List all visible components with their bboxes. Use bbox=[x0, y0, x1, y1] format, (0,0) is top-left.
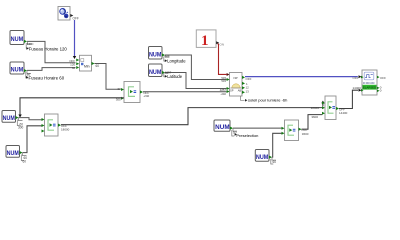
svg-text:NUM: NUM bbox=[215, 125, 229, 131]
blue wire sun to elapsed bbox=[245, 76, 358, 78]
svg-text:Preselection: Preselection bbox=[236, 133, 258, 138]
value label 305 bbox=[164, 55, 169, 61]
multiply block U5 bbox=[285, 120, 299, 141]
wire U1 to subtract bbox=[95, 64, 121, 90]
NUM constant N5 (Latitude) bbox=[149, 64, 166, 77]
constant box 1 (red) bbox=[196, 30, 216, 49]
svg-text:NUM: NUM bbox=[256, 155, 268, 161]
svg-text:NUM: NUM bbox=[149, 70, 161, 76]
svg-text:NUM: NUM bbox=[7, 151, 19, 157]
wire N7 to multiply bbox=[233, 127, 282, 129]
U5 input terminals bbox=[282, 127, 285, 135]
name label Latitude bbox=[165, 75, 167, 78]
svg-text:OFF: OFF bbox=[380, 76, 386, 80]
U7 terminals bbox=[361, 76, 364, 92]
svg-text:OFF: OFF bbox=[73, 17, 79, 21]
svg-text:120: 120 bbox=[27, 42, 32, 46]
svg-text:OFF: OFF bbox=[246, 77, 252, 81]
NUM constant N4 (Longitude) bbox=[149, 47, 166, 60]
svg-text:ON: ON bbox=[220, 42, 225, 46]
svg-text:soleil pour lumiere -6h: soleil pour lumiere -6h bbox=[248, 98, 287, 103]
value label 60 bbox=[26, 70, 31, 78]
wire N8 to multiply bbox=[272, 133, 282, 157]
value labels 60 300 bbox=[17, 118, 22, 126]
wire U2 to sun block bbox=[143, 91, 227, 93]
elapsed time block U7 bbox=[362, 70, 377, 95]
U6 input terminals bbox=[322, 102, 325, 115]
red wire 1 to sun bbox=[218, 44, 227, 74]
svg-text:60: 60 bbox=[118, 87, 122, 91]
name label Preselection bbox=[235, 133, 237, 136]
NUM constant N7 (Preselection) bbox=[214, 120, 233, 131]
svg-text:Longitude: Longitude bbox=[167, 59, 186, 64]
svg-text:18000: 18000 bbox=[311, 106, 320, 110]
wire blue down from timer bbox=[74, 20, 76, 58]
wire N3 to select1 bbox=[19, 118, 42, 120]
arrow out of 1 bbox=[216, 41, 219, 44]
U3 input terminals bbox=[227, 78, 230, 93]
NUM constant N6 (60) bbox=[6, 146, 23, 158]
U6 output terminal bbox=[336, 107, 339, 110]
wire U5 to select2 bbox=[302, 115, 323, 130]
U4 output terminal bbox=[58, 124, 61, 127]
svg-text:SP: SP bbox=[230, 89, 234, 93]
red arrowhead into sun bbox=[227, 73, 230, 76]
svg-text:3600: 3600 bbox=[302, 132, 309, 136]
NUM constant N3 (300) bbox=[2, 111, 19, 123]
wire N1 to Min input bbox=[27, 41, 76, 62]
svg-text:60: 60 bbox=[72, 66, 76, 70]
arrowhead into elapsed lower bbox=[359, 89, 362, 92]
svg-text:ELAPSED: ELAPSED bbox=[363, 86, 376, 90]
svg-text:60: 60 bbox=[96, 64, 100, 68]
name label Longitude bbox=[165, 59, 167, 62]
svg-text:NUM: NUM bbox=[149, 52, 161, 58]
NUM constant N1 (Fuseau Horaire 120) bbox=[10, 31, 27, 45]
arrowhead into elapsed bbox=[359, 75, 362, 78]
svg-text:3600: 3600 bbox=[311, 115, 318, 119]
svg-text:18000: 18000 bbox=[61, 127, 70, 131]
NUM constant N2 (Fuseau Horaire 60) bbox=[10, 62, 27, 74]
wire Latitude to sun bbox=[165, 73, 227, 89]
wire N6 to select1 bbox=[23, 126, 42, 153]
svg-text:Latitude: Latitude bbox=[167, 74, 183, 79]
svg-text:Min: Min bbox=[84, 65, 90, 69]
svg-text:NP: NP bbox=[234, 76, 238, 80]
arrowhead down at N3 bbox=[18, 115, 21, 118]
svg-text:-240: -240 bbox=[143, 94, 149, 98]
U1 output terminal bbox=[92, 62, 95, 65]
value label 4857 bbox=[164, 72, 168, 77]
svg-text:545: 545 bbox=[221, 79, 226, 83]
value label 60 bbox=[21, 153, 26, 161]
arrowhead into Min select bbox=[73, 56, 76, 59]
wire N2 to Min input bbox=[27, 68, 76, 71]
wire Longitude to sun bbox=[165, 55, 227, 80]
svg-text:Fuseau Horaire 60: Fuseau Horaire 60 bbox=[29, 76, 65, 81]
svg-text:NUM: NUM bbox=[11, 67, 24, 73]
arrow out of timer bbox=[70, 14, 73, 17]
svg-text:Fuseau Horaire 120: Fuseau Horaire 120 bbox=[29, 47, 68, 52]
svg-text:OFF: OFF bbox=[353, 76, 359, 80]
select2 block U6 bbox=[325, 96, 336, 120]
NUM constant N8 (60) bbox=[255, 150, 272, 162]
long wire U4 to select2 bbox=[61, 108, 322, 125]
svg-text:AB: AB bbox=[238, 89, 242, 93]
wire stub into select2 in1 bbox=[322, 102, 324, 106]
svg-text:60: 60 bbox=[273, 160, 277, 164]
svg-text:0:00.00: 0:00.00 bbox=[363, 81, 375, 85]
U4 input terminals bbox=[42, 118, 45, 133]
name label Fuseau Horaire 120 bbox=[26, 47, 28, 50]
U1 input terminals bbox=[76, 59, 79, 70]
svg-text:-240: -240 bbox=[220, 92, 226, 96]
svg-text:1: 1 bbox=[201, 33, 209, 49]
wait-timer block W1 bbox=[58, 7, 70, 21]
U2 input terminals bbox=[121, 88, 124, 100]
wire U6 to elapsed bbox=[339, 90, 358, 108]
svg-text:NUM: NUM bbox=[3, 116, 15, 122]
select1 block U4 bbox=[45, 114, 59, 136]
sun block U3 bbox=[230, 73, 243, 97]
svg-text:14400: 14400 bbox=[339, 111, 348, 115]
U2 output terminal bbox=[140, 90, 143, 93]
svg-text:NUM: NUM bbox=[11, 37, 24, 43]
value label 60 bbox=[271, 157, 276, 164]
Min select block U1 bbox=[80, 55, 92, 71]
svg-text:14400: 14400 bbox=[353, 86, 362, 90]
svg-text:13: 13 bbox=[246, 90, 250, 94]
long wire 300 to U2 bbox=[20, 98, 124, 117]
name label Fuseau Horaire 60 bbox=[26, 76, 28, 79]
name label soleil pour lumiere -6h bbox=[241, 96, 245, 100]
value label 60 bbox=[232, 128, 237, 136]
U3 output terminals bbox=[242, 76, 245, 94]
svg-text:60: 60 bbox=[23, 159, 27, 163]
subtract block U2 bbox=[124, 82, 140, 103]
svg-text:300: 300 bbox=[18, 126, 24, 130]
value label 120 bbox=[26, 41, 33, 48]
U5 output terminal bbox=[299, 128, 302, 131]
